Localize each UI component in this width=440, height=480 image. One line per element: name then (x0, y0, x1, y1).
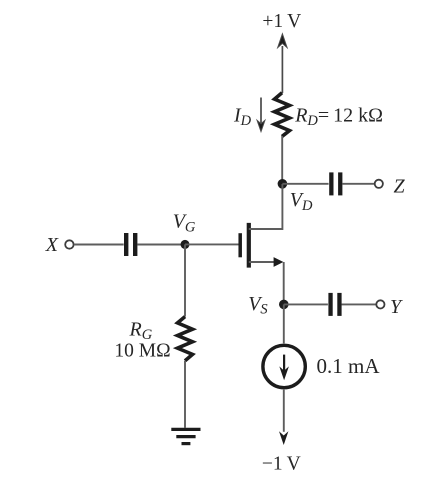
ID current arrow (257, 98, 265, 132)
svg-text:VS: VS (248, 293, 268, 318)
wire: node VS down to current source I1 (283, 304, 285, 343)
wire: node VG to gate (185, 243, 239, 245)
wire: current source to -1 V rail (283, 390, 285, 432)
terminal X open circle (65, 240, 73, 248)
svg-text:X: X (45, 234, 59, 256)
wire: CY to terminal Y (342, 303, 377, 305)
svg-text:VG: VG (173, 211, 196, 236)
wire: node VD to capacitor CZ (282, 183, 328, 185)
svg-text:10 MΩ: 10 MΩ (114, 341, 170, 362)
terminal Y open circle (376, 300, 384, 308)
current source I1 (0.1 mA) (263, 345, 305, 387)
wire: CZ to terminal Z (342, 183, 374, 185)
svg-text:+1 V: +1 V (262, 11, 301, 32)
wire: RG bottom to ground (184, 361, 186, 428)
svg-text:VD: VD (290, 189, 313, 214)
capacitor CZ (329, 172, 342, 195)
wire: CX to node VG (137, 244, 185, 246)
resistor RD (275, 93, 290, 137)
resistor RG (178, 317, 193, 361)
svg-text:RD= 12 kΩ: RD= 12 kΩ (294, 104, 383, 129)
svg-text:RG: RG (129, 318, 153, 343)
node VG junction dot (181, 240, 190, 249)
wire: Q1 source down to node VS (283, 262, 285, 304)
wire: node VG down to RG (184, 244, 186, 316)
VDD supply arrow (278, 34, 287, 93)
wire: node VS to capacitor CY (284, 303, 328, 305)
node VD junction dot (278, 179, 288, 189)
terminal Z open circle (375, 180, 383, 188)
capacitor CX (124, 233, 137, 256)
node VS junction dot (279, 300, 289, 310)
ground (171, 429, 200, 443)
svg-text:0.1 mA: 0.1 mA (317, 354, 381, 378)
svg-text:Y: Y (390, 296, 403, 318)
wire: RD bottom to node VD (281, 136, 283, 184)
svg-text:ID: ID (233, 104, 252, 129)
VSS supply arrow (279, 431, 288, 445)
svg-text:Z: Z (394, 176, 406, 198)
svg-text:−1 V: −1 V (262, 454, 301, 475)
capacitor CY (328, 293, 341, 316)
wire: terminal X to capacitor CX (74, 244, 124, 246)
transistor Q1 (NMOS) (240, 184, 283, 268)
